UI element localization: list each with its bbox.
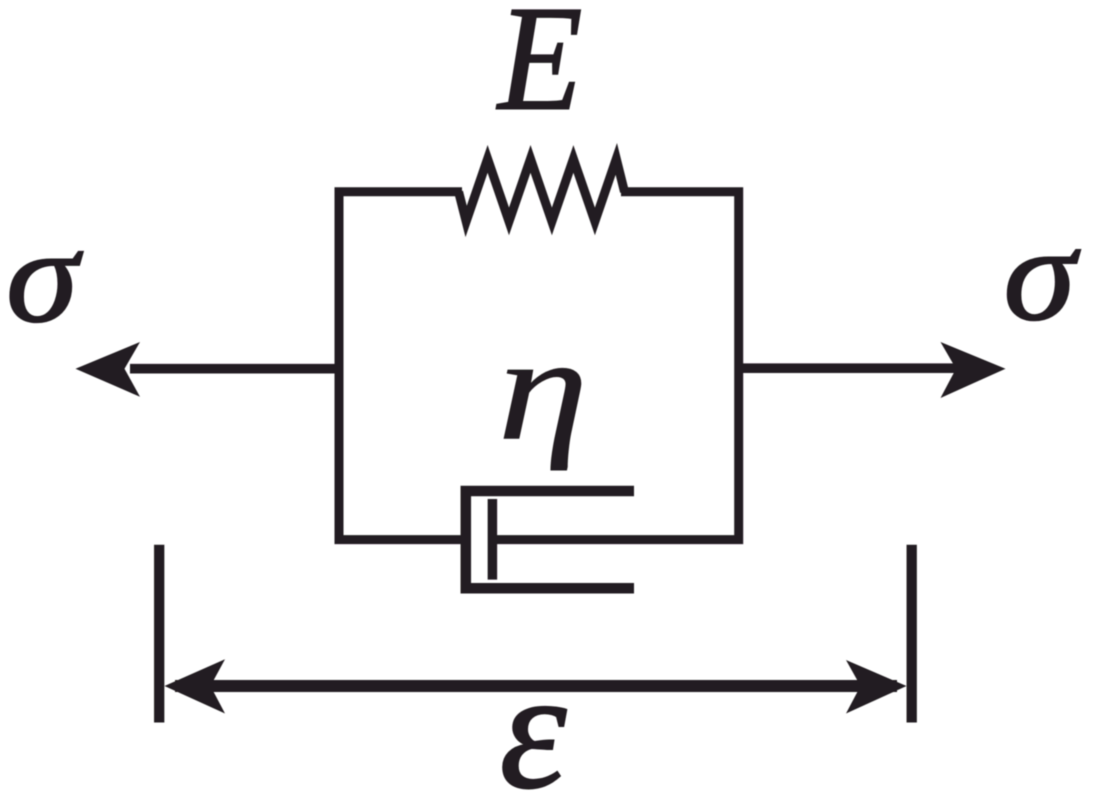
right stress arrow shaft [739,363,957,373]
left strain reference bar [154,545,164,723]
left stress arrow shaft [130,364,339,374]
strain arrow left head [165,659,226,713]
svg-text:E: E [496,0,582,142]
svg-text:ε: ε [500,636,567,798]
right strain reference bar [907,545,917,723]
spring E (zigzag) in top side [459,159,625,222]
dashpot cylinder U-shape [466,491,634,588]
wire right branch: top-right segment, right edge, piston rod [492,192,738,540]
strain arrow right head [846,660,907,714]
left stress arrowhead [76,342,141,397]
svg-text:σ: σ [6,202,83,350]
strain dimension arrow shaft [175,680,897,692]
dashpot piston plate [488,499,498,580]
wire left branch: bottom-left segment, left edge, top-left segment [339,192,466,540]
svg-text:σ: σ [1003,200,1080,348]
svg-text:η: η [498,306,589,471]
right stress arrowhead [941,342,1006,398]
